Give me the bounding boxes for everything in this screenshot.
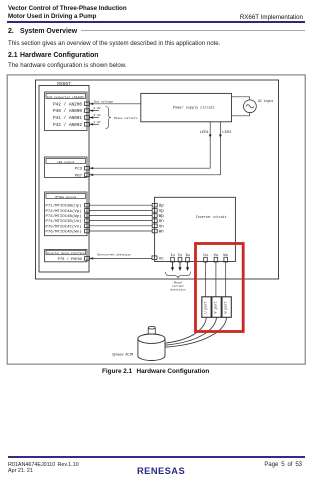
svg-text:P42 / AN002: P42 / AN002 [53,123,82,128]
svg-text:3.3V: 3.3V [94,114,101,117]
power supply circuit box [141,93,232,121]
svg-text:P72/MTIOC4A(Vp): P72/MTIOC4A(Vp) [46,209,82,214]
footer rule [8,456,305,458]
pin box POE0 [85,257,90,261]
svg-text:Wn: Wn [159,231,165,235]
block: inverter board interface [45,250,88,262]
svg-text:Phase currents: Phase currents [114,116,138,120]
svg-text:PC3: PC3 [75,168,83,172]
connector/sensor V [212,297,221,318]
body paragraph 2 [8,62,127,69]
svg-text:LED output: LED output [57,161,75,164]
svg-text:Vn: Vn [159,225,165,229]
inverter input pin boxes + labels [152,203,164,234]
wires: curves from connectors to motor [165,317,227,347]
pin OC [152,256,164,262]
svg-text:Phase: Phase [174,280,183,284]
wires: U V W down to connectors [206,262,226,297]
svg-text:P74/MTIOC3D(Un): P74/MTIOC3D(Un) [46,219,82,224]
inverter board box [36,80,279,279]
svg-text:P41 / AN001: P41 / AN001 [53,116,82,121]
svg-text:RX66T: RX66T [57,81,71,87]
svg-text:Wp: Wp [159,215,165,219]
wire: LED2 line [90,122,233,176]
block: A/D converter (S12AD) [45,92,88,131]
figure caption [102,368,132,375]
header title line 2 [8,13,96,20]
svg-text:P73/MTIOC4B(Wp): P73/MTIOC4B(Wp) [46,214,82,219]
block: LED output [45,157,88,178]
svg-text:P70 / POE0#: P70 / POE0# [58,257,83,262]
wire: phase current arrow [90,121,101,126]
svg-text:detection: detection [170,288,185,292]
pins Uu Vu Wu (motor outputs) [203,254,228,262]
pin box PC3 [85,166,90,170]
svg-text:MTU3a output: MTU3a output [55,196,76,199]
svg-text:P75/MTIOC4C(Vn): P75/MTIOC4C(Vn) [46,224,82,229]
RX66T MCU box [39,81,89,272]
svg-text:Vp: Vp [159,210,165,214]
footer date [8,468,33,474]
header title line 1 [8,5,127,12]
pin box AN2 [85,116,90,120]
LED2 diode symbol [219,135,222,138]
svg-text:current: current [172,285,184,288]
pin box AN3 [85,123,90,127]
block: MTU3a output [45,192,88,236]
svg-text:P76/MTIOC4D(Wn): P76/MTIOC4D(Wn) [46,230,82,235]
svg-text:LED2: LED2 [222,131,232,135]
wire: overcurrent detection from OC [90,252,153,259]
pins Iu Iv Iw with down arrows [170,254,190,271]
motor shaft [148,326,155,336]
LED1 diode symbol [209,135,212,138]
svg-text:OC: OC [159,257,164,261]
brace: phase currents group [106,107,138,129]
inverter circuit box [155,197,236,261]
pin box PB7 [85,173,90,177]
svg-text:W part: W part [224,301,229,313]
footer page number [264,462,302,468]
svg-text:3.3V: 3.3V [94,107,101,110]
body paragraph 1 [8,40,220,47]
heading underline [81,30,305,31]
svg-text:V part: V part [214,301,219,313]
outer figure frame [7,75,305,364]
pin box AN1 [85,109,90,113]
header right: document name [240,14,303,21]
header navy rule [7,21,305,23]
footer doc number [8,462,55,468]
svg-text:U part: U part [203,301,208,313]
pin box AN0 [85,102,90,106]
svg-text:LED1: LED1 [200,131,210,135]
svg-text:Bus voltage: Bus voltage [94,99,113,103]
wire: bus voltage to AN200 [90,99,141,105]
svg-text:Overcurrent detection: Overcurrent detection [97,252,131,256]
pin boxes MTU x6 [85,203,90,232]
wire: phase current arrow [90,114,101,119]
svg-text:Power supply circuit: Power supply circuit [173,105,215,110]
svg-text:Up: Up [159,205,165,209]
svg-text:P42 / AN200: P42 / AN200 [53,102,82,107]
section heading 2 [8,28,14,35]
connector/sensor U [202,297,211,318]
section heading 2.1 [8,52,18,59]
wire: LED1 line [90,122,211,170]
svg-text:PB7: PB7 [75,174,83,178]
AC source symbol [232,97,274,116]
svg-text:P40 / AN000: P40 / AN000 [53,109,82,114]
svg-text:Inverter board interface: Inverter board interface [47,251,85,255]
wires: six PWM lines to inverter [90,205,153,231]
svg-text:P71/MTIOC3B(Up): P71/MTIOC3B(Up) [46,204,82,209]
svg-text:Un: Un [159,220,165,224]
red highlight box [196,244,244,332]
Renesas logo [137,466,185,476]
underbrace: phase current detection [166,272,191,292]
svg-text:3.3V: 3.3V [94,121,101,124]
svg-text:AC input: AC input [258,99,273,103]
svg-text:3phase ACIM: 3phase ACIM [112,352,133,356]
connector/sensor W [222,297,231,318]
svg-text:A/D converter (S12AD): A/D converter (S12AD) [47,95,85,99]
svg-text:Inverter circuit: Inverter circuit [196,215,227,219]
motor body (3-phase ACIM) [112,334,165,360]
wire: phase current arrow [90,107,101,112]
